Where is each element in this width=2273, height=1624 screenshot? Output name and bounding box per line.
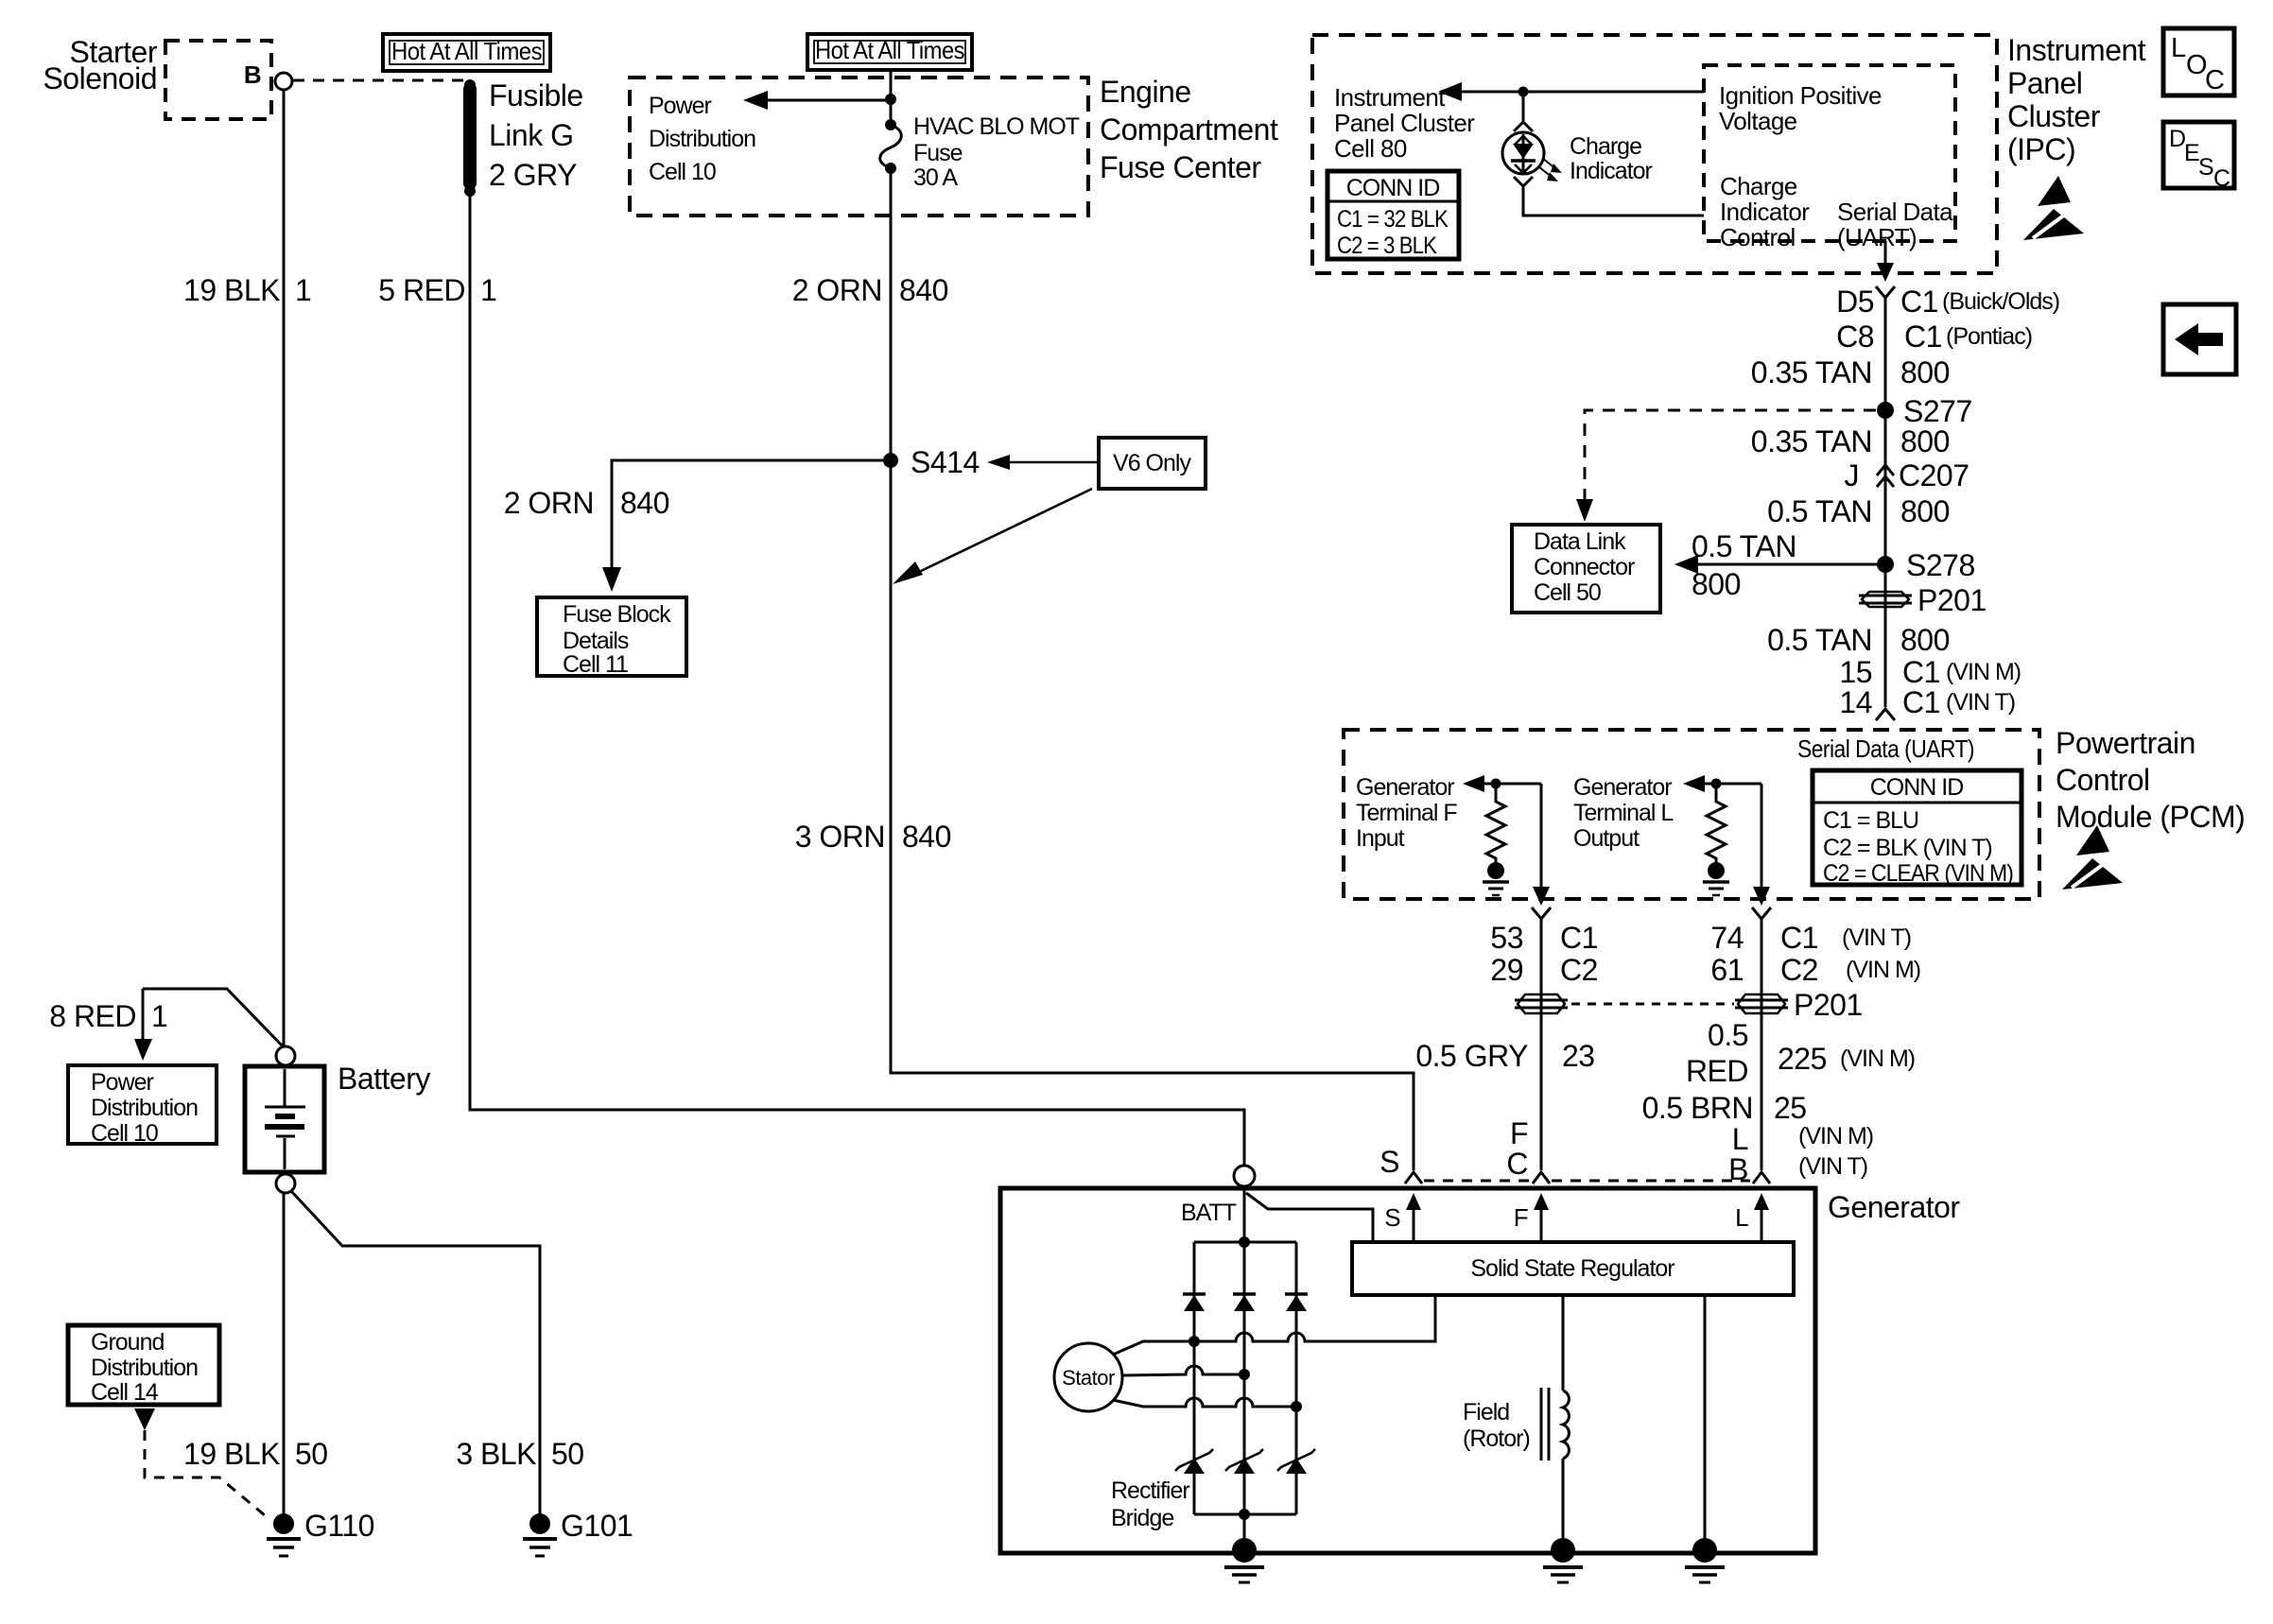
svg-text:800: 800 [1900,355,1950,389]
svg-text:Cluster: Cluster [2007,99,2101,133]
svg-text:30 A: 30 A [913,164,958,191]
svg-text:C1: C1 [1560,921,1598,955]
svg-text:(Rotor): (Rotor) [1463,1425,1530,1452]
svg-text:Ground: Ground [91,1329,164,1356]
svg-text:L: L [2171,33,2186,63]
serial data wire IPC to PCM [1884,298,1887,707]
svg-text:CONN ID: CONN ID [1346,175,1440,201]
connector C207 [1877,465,1894,487]
svg-text:(Pontiac): (Pontiac) [1946,323,2032,350]
svg-text:61: 61 [1710,953,1744,987]
svg-text:Stator: Stator [1062,1366,1115,1390]
svg-text:Data Link: Data Link [1534,528,1626,555]
svg-text:S: S [1379,1145,1399,1179]
svg-text:23: 23 [1562,1039,1595,1073]
battery box [245,1066,324,1172]
battery positive terminal circle [276,1046,295,1065]
svg-text:Powertrain: Powertrain [2056,726,2195,760]
svg-text:25: 25 [1774,1091,1807,1125]
svg-text:0.35 TAN: 0.35 TAN [1751,355,1872,389]
ground G110 [267,1513,301,1556]
svg-text:8 RED: 8 RED [49,999,136,1033]
svg-text:(IPC): (IPC) [2007,132,2075,166]
branch wire to fuse block details [612,460,891,567]
svg-text:Panel Cluster: Panel Cluster [1334,109,1475,137]
svg-text:Output: Output [1573,825,1640,852]
connector P201 [1859,592,1912,607]
svg-text:0.5 TAN: 0.5 TAN [1767,623,1872,657]
rectifier right column [1295,1242,1298,1514]
wire 8 RED [143,989,286,1049]
svg-text:(Buick/Olds): (Buick/Olds) [1942,288,2059,315]
svg-text:0.5: 0.5 [1708,1018,1748,1052]
avalanche diode D4 [1175,1449,1213,1474]
svg-text:C1: C1 [1902,655,1940,689]
svg-text:C1: C1 [1904,320,1942,354]
S sense jog wire [1246,1193,1373,1242]
svg-text:50: 50 [551,1437,584,1471]
svg-text:0.5 GRY: 0.5 GRY [1415,1039,1528,1073]
svg-text:800: 800 [1692,567,1741,601]
instrument panel cluster dashed box [1312,35,1997,273]
DESC box [2163,122,2234,192]
starter solenoid dashed box [165,41,271,119]
connector chevron F [1533,1172,1550,1183]
svg-text:(VIN T): (VIN T) [1798,1153,1867,1180]
dashed trail to G110 [145,1430,270,1520]
svg-text:S277: S277 [1903,394,1972,428]
back arrow box [2163,304,2236,374]
svg-text:840: 840 [620,486,669,520]
V6 only box [1099,438,1206,489]
svg-text:800: 800 [1900,494,1950,528]
svg-text:3 ORN: 3 ORN [795,820,885,854]
splice S278 [1877,556,1894,573]
svg-text:Engine: Engine [1100,75,1191,109]
svg-text:(VIN M): (VIN M) [1840,1045,1915,1072]
connector chevron L below PCM [1752,907,1771,919]
svg-text:Control: Control [1720,223,1796,251]
rectifier top rail [1194,1241,1296,1244]
svg-text:Field: Field [1463,1399,1509,1425]
svg-text:C2: C2 [1780,953,1818,987]
svg-text:BATT: BATT [1181,1200,1237,1226]
wire S278 to data link connector [1698,563,1878,566]
F arrow inside generator [1540,1210,1543,1242]
serial data down arrow [1884,241,1887,263]
svg-text:0.35 TAN: 0.35 TAN [1751,424,1872,458]
svg-text:C1 = BLU: C1 = BLU [1823,807,1918,834]
L arrow inside generator [1761,1210,1763,1242]
ESD symbol PCM [2062,825,2123,890]
svg-text:C2: C2 [1560,953,1598,987]
avalanche diode D6 [1277,1449,1315,1474]
svg-text:Charge: Charge [1570,133,1641,160]
svg-text:C1 = 32 BLK: C1 = 32 BLK [1337,206,1449,233]
svg-text:225: 225 [1778,1042,1827,1076]
svg-text:C2 = BLK (VIN T): C2 = BLK (VIN T) [1823,835,1992,861]
svg-text:2 GRY: 2 GRY [489,158,577,192]
wire generator terminal L output [1705,783,1761,786]
svg-text:5 RED: 5 RED [378,273,465,307]
power distribution cell 10 box [68,1065,217,1144]
S arrow inside generator [1413,1210,1415,1242]
svg-text:Fuse: Fuse [913,140,963,166]
wire field to case ground [1562,1459,1565,1550]
svg-text:C: C [2205,65,2225,95]
connector P201 (F wire) [1515,994,1568,1013]
ground generator case (bridge) [1224,1538,1264,1582]
fusible link G [463,79,477,197]
wire 3 ORN 840 to generator S [891,460,1414,1170]
svg-text:Hot At All Times: Hot At All Times [391,37,543,65]
svg-text:B: B [244,60,261,89]
svg-text:Bridge: Bridge [1111,1505,1173,1531]
wire L to generator [1761,919,1763,1170]
PCM conn id table [1813,770,2021,887]
LOC box [2163,28,2234,95]
wire battery to G101 [291,1191,540,1516]
wire ignition positive voltage arrow [1462,91,1704,94]
svg-text:Terminal L: Terminal L [1573,800,1674,826]
ESD symbol IPC [2023,176,2084,240]
arrow V6 to S414 [1010,461,1099,464]
connector chevron below lamp [1514,177,1533,186]
arrow from ground distribution box [134,1408,155,1430]
svg-text:Link G: Link G [489,118,573,152]
wire regulator to case ground (L) [1704,1295,1707,1550]
svg-text:Compartment: Compartment [1100,112,1278,147]
svg-text:Voltage: Voltage [1719,107,1797,135]
svg-text:P201: P201 [1917,583,1987,617]
svg-text:Cell 14: Cell 14 [91,1379,159,1406]
ground generator case (regulator) [1685,1538,1725,1582]
wire BATT into bridge [1243,1186,1246,1242]
svg-text:Cell 80: Cell 80 [1334,134,1407,163]
svg-text:Control: Control [2056,763,2150,797]
svg-text:Ignition Positive: Ignition Positive [1719,81,1882,110]
wire bridge to case ground [1243,1514,1246,1550]
svg-text:S414: S414 [911,445,980,479]
dashed branch to data link connector [1585,410,1876,499]
svg-text:D: D [2169,126,2185,152]
ground distribution cell 14 box [68,1325,219,1405]
junction [1491,779,1501,789]
svg-text:Solenoid: Solenoid [43,61,157,95]
wire lamp to charge indicator control [1523,186,1704,216]
svg-text:V6 Only: V6 Only [1113,450,1191,476]
svg-text:S: S [2198,154,2213,181]
avalanche diode D5 [1225,1449,1263,1474]
diode D2 [1233,1294,1256,1311]
battery negative terminal circle [276,1174,295,1193]
fuse HVAC BLO MOT 30A [880,119,902,174]
svg-text:(VIN T): (VIN T) [1842,924,1911,951]
wire battery to G110 [283,1193,286,1516]
svg-text:Charge: Charge [1720,172,1797,200]
svg-text:74: 74 [1710,921,1744,955]
svg-text:C2 = CLEAR (VIN M): C2 = CLEAR (VIN M) [1823,860,2013,887]
field (rotor) coil [1541,1388,1569,1460]
svg-text:CONN ID: CONN ID [1870,774,1964,801]
svg-text:Cell 11: Cell 11 [563,651,628,678]
svg-text:(VIN M): (VIN M) [1946,659,2021,685]
wire generator terminal F input [1484,783,1541,786]
svg-text:Fuse Center: Fuse Center [1100,150,1261,184]
svg-text:Distribution: Distribution [91,1355,198,1381]
diode D1 [1183,1294,1206,1311]
stator phase wire 1 [1113,1297,1435,1355]
resistor R-L [1707,784,1726,864]
ground G101 [523,1513,557,1556]
connector chevron F below PCM [1532,907,1551,919]
IPC conn id table [1327,171,1459,259]
BATT terminal circle [1234,1166,1255,1186]
svg-text:Connector: Connector [1534,554,1635,580]
svg-text:Serial Data (UART): Serial Data (UART) [1797,734,1974,763]
svg-text:Input: Input [1356,825,1405,852]
svg-text:L: L [1732,1122,1748,1156]
svg-text:C8: C8 [1836,320,1874,354]
resistor R-F [1486,784,1505,864]
wire L output with arrow to PCM edge [1761,784,1763,887]
svg-text:1: 1 [151,999,167,1033]
stator phase wire 2 [1122,1366,1244,1375]
ignition positive voltage inner dashed box [1704,65,1955,241]
svg-text:C: C [2213,165,2230,192]
svg-text:(VIN M): (VIN M) [1846,957,1920,983]
junction [885,94,896,105]
svg-text:Hot At All Times: Hot At All Times [815,36,965,64]
svg-text:L: L [1735,1203,1748,1232]
ground in PCM (L) [1703,862,1729,895]
wire 2 ORN 840 down to S414 [890,174,893,460]
svg-text:Distribution: Distribution [649,126,755,152]
svg-text:C1: C1 [1900,285,1938,319]
rectifier left column [1193,1242,1196,1514]
connector chevron above lamp [1514,122,1533,131]
svg-text:2 ORN: 2 ORN [792,273,882,307]
svg-text:S: S [1384,1203,1400,1232]
svg-text:3 BLK: 3 BLK [456,1437,536,1471]
svg-text:15: 15 [1839,655,1872,689]
svg-text:840: 840 [902,820,951,854]
svg-text:19 BLK: 19 BLK [183,273,280,307]
junction [1518,87,1529,97]
arrow to power distribution cell 10 [768,99,891,102]
battery symbol [265,1069,305,1169]
wire to charge indicator [1522,92,1525,121]
connector chevron L [1753,1172,1770,1183]
svg-text:0.5 TAN: 0.5 TAN [1767,494,1872,528]
svg-text:Generator: Generator [1356,774,1454,801]
powertrain control module dashed box [1344,730,2039,899]
rectifier bottom rail [1194,1513,1296,1516]
rectifier mid column [1243,1242,1246,1514]
generator box [1000,1188,1815,1553]
hot at all times box 2 [807,34,972,70]
svg-text:Terminal F: Terminal F [1356,800,1457,826]
svg-text:C: C [1506,1147,1528,1181]
svg-text:Serial Data: Serial Data [1837,198,1953,226]
svg-text:Cell 50: Cell 50 [1534,579,1601,606]
svg-text:Indicator: Indicator [1720,198,1810,226]
svg-text:800: 800 [1900,623,1950,657]
svg-text:0.5 TAN: 0.5 TAN [1692,529,1796,563]
svg-text:0.5 BRN: 0.5 BRN [1642,1091,1753,1125]
svg-text:29: 29 [1490,953,1523,987]
wire F to generator [1540,919,1543,1170]
wire from hot box into fuse center [890,71,893,121]
wire F output with arrow to PCM edge [1540,784,1543,887]
svg-text:C2 = 3 BLK: C2 = 3 BLK [1337,233,1437,259]
svg-text:1: 1 [295,273,311,307]
fuse block details cell 11 box [537,597,686,676]
svg-text:Cell 10: Cell 10 [91,1120,158,1147]
svg-text:Power: Power [91,1069,154,1096]
hot at all times box 1 [383,34,550,71]
dashed connector line along generator top [1424,1180,1530,1183]
stator [1054,1343,1122,1411]
connector P201 (L wire) [1735,994,1788,1013]
svg-text:F: F [1510,1116,1528,1150]
svg-text:Power: Power [649,93,712,119]
wire dashed B to fusible link [293,79,466,82]
svg-text:F: F [1514,1203,1528,1232]
svg-text:Indicator: Indicator [1570,158,1653,184]
svg-text:Generator: Generator [1828,1190,1960,1224]
arrow V6 to wire [919,489,1092,572]
svg-text:HVAC BLO MOT: HVAC BLO MOT [913,113,1080,140]
svg-text:19 BLK: 19 BLK [183,1437,280,1471]
svg-text:Panel: Panel [2007,66,2082,100]
svg-text:840: 840 [899,273,948,307]
svg-text:(VIN M): (VIN M) [1798,1123,1873,1149]
svg-text:800: 800 [1900,424,1950,458]
stator phase wire 3 [1113,1398,1296,1407]
wire 5 RED vertical [470,195,1244,1166]
svg-text:P201: P201 [1794,988,1863,1022]
svg-text:S278: S278 [1906,548,1975,582]
svg-text:Details: Details [563,628,629,654]
svg-text:14: 14 [1839,685,1872,719]
svg-text:G101: G101 [561,1509,633,1543]
svg-text:C1: C1 [1902,685,1940,719]
svg-text:RED: RED [1686,1054,1748,1088]
lamp emission arrows [1538,158,1562,181]
svg-text:Fuse Block: Fuse Block [563,601,671,628]
svg-text:Instrument: Instrument [2007,33,2146,67]
svg-text:2 ORN: 2 ORN [504,486,594,520]
svg-text:Module (PCM): Module (PCM) [2056,800,2245,834]
charge indicator lamp U1 [1502,132,1544,174]
wire 19 BLK vertical [283,90,286,1046]
svg-text:Rectifier: Rectifier [1111,1477,1189,1504]
node S414 [883,453,898,468]
svg-text:(VIN T): (VIN T) [1946,689,2015,716]
svg-text:53: 53 [1490,921,1523,955]
svg-text:D5: D5 [1836,285,1874,319]
splice S277 [1877,402,1894,419]
diode D3 [1285,1294,1308,1311]
svg-text:G110: G110 [304,1509,374,1543]
svg-text:Instrument: Instrument [1334,83,1446,112]
svg-text:J: J [1845,458,1860,492]
svg-text:(UART): (UART) [1837,223,1917,251]
engine compartment fuse center dashed box [630,78,1088,216]
connector chevron into PCM [1876,709,1895,720]
svg-text:Cell 10: Cell 10 [649,159,716,185]
svg-text:C1: C1 [1780,921,1818,955]
data link connector cell 50 box [1512,525,1660,613]
svg-text:Battery: Battery [338,1062,430,1096]
ground generator case (field) [1543,1538,1583,1582]
svg-text:Fusible: Fusible [489,78,583,112]
field wire from regulator [1562,1295,1565,1391]
svg-text:Distribution: Distribution [91,1095,198,1121]
svg-text:C207: C207 [1899,458,1969,492]
connector chevron S [1405,1172,1422,1183]
svg-text:Solid State Regulator: Solid State Regulator [1470,1255,1674,1282]
svg-text:50: 50 [295,1437,328,1471]
terminal B circle [275,73,292,90]
junction [1711,779,1722,789]
svg-text:Generator: Generator [1573,774,1672,801]
dashed link between P201 halves [1571,1003,1734,1006]
ground in PCM (F) [1483,862,1509,895]
svg-text:1: 1 [480,273,496,307]
solid state regulator box [1352,1242,1794,1295]
svg-text:E: E [2184,140,2199,166]
connector chevron below IPC [1876,286,1895,298]
